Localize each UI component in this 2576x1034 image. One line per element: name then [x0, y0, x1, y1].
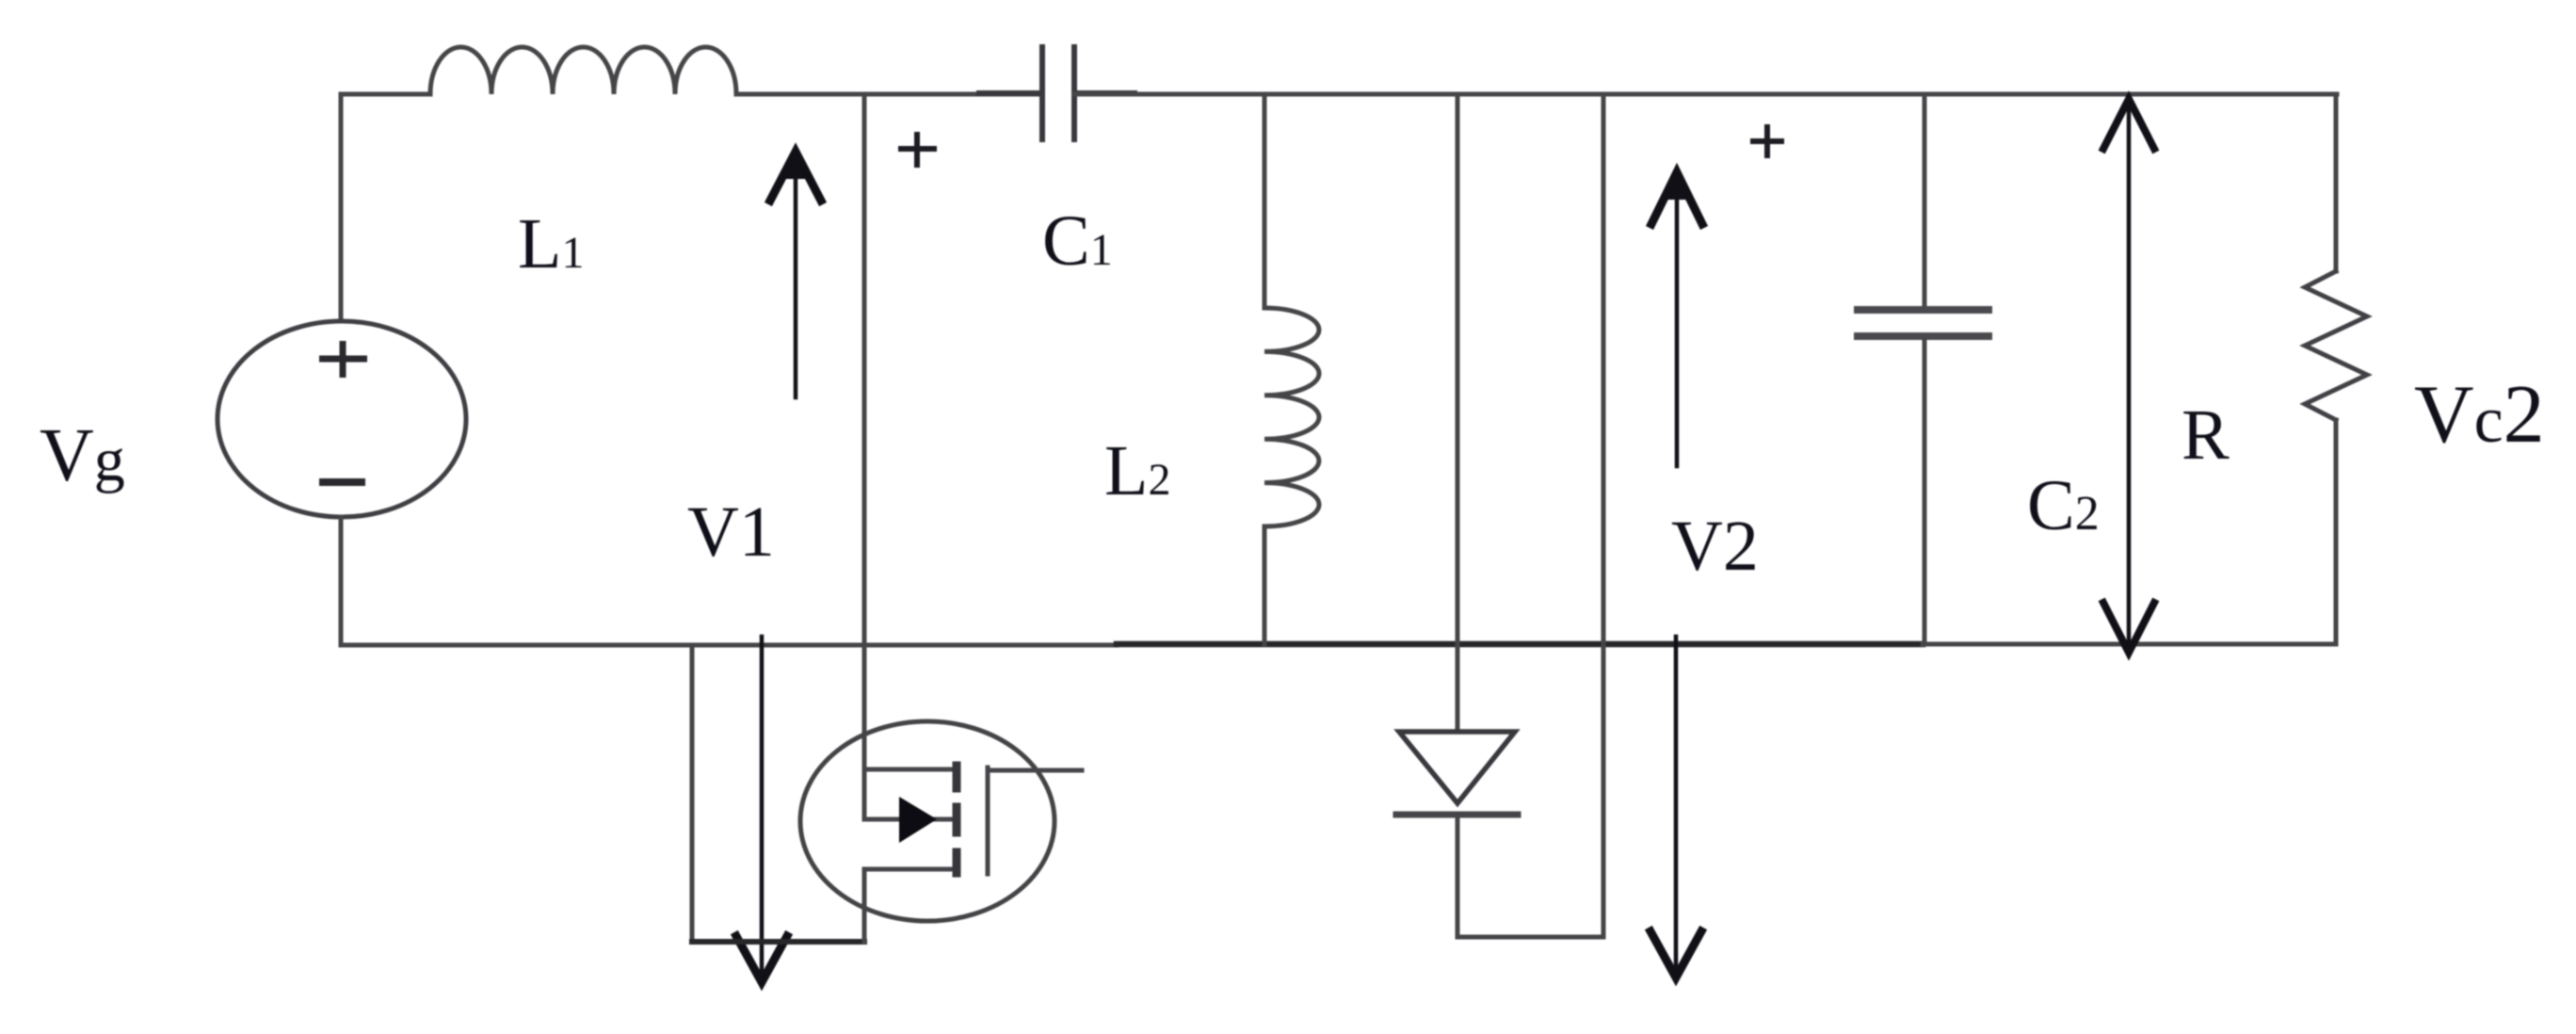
wire top left horizontal	[341, 92, 430, 97]
inductor L2 branch top wire	[1263, 94, 1267, 308]
wire source to bottom	[339, 517, 344, 645]
inductor L1	[430, 47, 736, 94]
svg-text:Vg: Vg	[40, 414, 125, 497]
diode D1 triangle	[1399, 732, 1515, 803]
inductor L2 branch bottom wire	[1263, 526, 1267, 644]
MOSFET body arrow	[864, 797, 951, 843]
MOSFET drain bar	[864, 767, 958, 772]
arrow V1 down	[736, 637, 787, 982]
MOSFET gate bar	[986, 767, 990, 874]
MOSFET gate lead	[988, 768, 1082, 773]
capacitor C1	[1042, 47, 1074, 139]
arrow measurement double-headed	[2103, 99, 2154, 653]
wire top right horizontal	[1074, 92, 2337, 97]
svg-text:V1: V1	[687, 493, 775, 572]
arrow V1 up	[770, 146, 821, 397]
wire switch loop left vertical	[690, 645, 695, 942]
arrow V2 down	[1650, 637, 1701, 977]
svg-text:L2: L2	[1104, 431, 1170, 510]
svg-text:C1: C1	[1042, 202, 1113, 281]
MOSFET channel tick top	[953, 766, 961, 788]
arrow V2 up	[1651, 166, 1702, 466]
plus sign at V2	[1750, 124, 1784, 158]
capacitor C2 plates	[1858, 310, 1988, 336]
voltage source Vg	[217, 321, 466, 517]
capacitor C2 bottom lead	[1923, 340, 1927, 644]
MOSFET source bar	[864, 867, 958, 872]
MOSFET source lead	[862, 869, 867, 942]
wire bottom left	[341, 643, 1117, 648]
resistor R bottom lead	[2334, 420, 2339, 644]
resistor R zigzag	[2305, 271, 2367, 420]
svg-text:L1: L1	[518, 204, 584, 283]
node V1 vertical wire	[862, 94, 867, 819]
wire C1 right lead (dark)	[1077, 90, 1135, 96]
plus sign at V1	[898, 132, 937, 168]
wire bottom right	[1923, 642, 2336, 647]
inductor L2	[1264, 308, 1319, 526]
svg-text:R: R	[2182, 396, 2230, 475]
diode D1 branch top wire	[1456, 94, 1460, 731]
wire bottom middle (thick)	[1117, 641, 1923, 648]
diode D1 bottom lead	[1456, 815, 1460, 937]
wire switch loop bottom horizontal	[692, 939, 864, 945]
wire top middle	[736, 92, 1039, 97]
capacitor C2 top lead	[1923, 94, 1927, 306]
wire left vertical from top to source	[339, 94, 344, 321]
resistor R top lead	[2334, 94, 2339, 271]
svg-text:C2: C2	[2027, 466, 2100, 545]
minus sign in Vg	[319, 478, 365, 486]
svg-text:Vc2: Vc2	[2414, 369, 2545, 460]
MOSFET channel tick bottom	[953, 852, 961, 873]
svg-text:V2: V2	[1671, 507, 1759, 586]
diode D1 cathode bar	[1396, 812, 1518, 818]
plus sign in Vg	[319, 341, 367, 378]
wire diode loop bottom	[1457, 935, 1603, 940]
MOSFET channel tick middle	[953, 807, 961, 832]
node V2 vertical wire	[1602, 94, 1606, 937]
wire C1 left lead (dark)	[979, 90, 1039, 96]
MOSFET Q1 body ellipse	[800, 721, 1055, 921]
